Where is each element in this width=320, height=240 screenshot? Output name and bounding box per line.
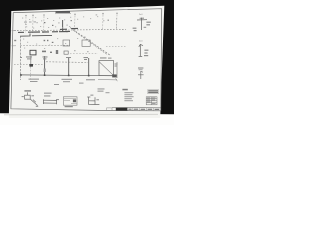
left vertical wall dashed — [19, 36, 21, 80]
plan title underline — [55, 13, 71, 15]
title table B — [146, 97, 157, 105]
section: dark corner footing — [112, 74, 116, 77]
dimension line below box — [98, 79, 117, 81]
bottom detail 1 valve assembly — [25, 92, 38, 105]
small plan marks — [42, 20, 109, 54]
bottom detail 3 hatch — [64, 98, 77, 103]
notes block heading — [122, 89, 127, 91]
title table B text — [147, 97, 156, 104]
section: post 1 lower dashes — [29, 67, 31, 80]
section: box right post — [116, 62, 118, 78]
lower dashed line — [70, 52, 98, 54]
right detail 2 post — [139, 44, 143, 56]
bottom detail 4 bracket — [87, 97, 99, 105]
title strip band top line — [112, 107, 161, 109]
interior dashed line right — [106, 45, 126, 47]
long dashed property line — [14, 29, 126, 30]
bottom detail 2 channel — [43, 99, 56, 104]
scanner black backdrop — [0, 0, 174, 114]
right symbol 3 cross — [138, 71, 144, 79]
left margin label — [14, 40, 16, 41]
section: top dashed rail — [46, 61, 88, 64]
vertical dashed stub — [116, 18, 118, 28]
wall stub vertical — [62, 20, 64, 32]
grid line F — [116, 14, 118, 30]
section: post 4 — [88, 58, 90, 76]
right symbol 3 label — [138, 67, 143, 68]
diagonal dashed line 2 — [74, 31, 108, 55]
note text right of section — [98, 88, 110, 93]
printed sheet border — [11, 9, 162, 111]
diagonal dashed line — [70, 28, 111, 56]
section: box diagonal — [99, 62, 112, 75]
bottom detail 2 notes — [44, 93, 59, 101]
section: left dashed rail — [14, 63, 44, 65]
section small text labels — [20, 56, 118, 72]
upper wall ledge — [20, 34, 52, 37]
baseline post nodes — [20, 74, 89, 76]
section: post 3 — [68, 58, 70, 76]
grid line D — [74, 15, 76, 30]
section: post 2 — [44, 56, 46, 76]
section: dark junction blob — [29, 64, 33, 67]
fixture box 2 — [82, 40, 90, 46]
plan speckle texture — [22, 16, 98, 49]
grid line E — [102, 15, 104, 30]
title strip: text smears — [128, 109, 159, 110]
grid bubbles row — [25, 13, 118, 17]
bottom detail 3 label — [65, 106, 73, 107]
right detail 2 side notes — [144, 50, 148, 57]
dimension line tick — [116, 78, 118, 81]
title table A — [148, 90, 159, 94]
text rows under baseline — [29, 79, 96, 85]
bottom detail 4 marks — [90, 95, 99, 101]
section: ground baseline — [20, 74, 117, 77]
left margin tick 2 — [12, 45, 17, 47]
scan edge faint line — [4, 113, 158, 116]
bottom detail 3 dark chunk — [73, 99, 76, 102]
plan title text — [56, 11, 71, 13]
grid line A — [25, 17, 27, 33]
misc faint plan smudges — [25, 14, 104, 52]
bottom detail 3 box — [63, 97, 77, 105]
page background white — [0, 0, 174, 125]
right detail 1 side notes — [133, 22, 151, 32]
white paper sheet (tilted) — [9, 6, 165, 118]
right detail 1 T-post — [137, 18, 147, 30]
bottom detail 1 label — [24, 90, 31, 91]
section: right box — [99, 61, 114, 76]
room box dark — [30, 50, 36, 55]
fixture box 1 — [63, 40, 70, 46]
title strip: dark block — [116, 108, 128, 111]
section: post 1 — [30, 56, 32, 67]
main wall run — [18, 28, 78, 32]
grid line C — [43, 16, 45, 33]
title strip: leading cell — [107, 108, 112, 111]
dimension text row — [24, 21, 36, 22]
left margin tick 1 — [12, 30, 16, 32]
title strip: cells — [133, 108, 154, 111]
notes block lines — [124, 92, 133, 101]
interior dashed line mid — [20, 44, 70, 47]
grid line B — [32, 16, 34, 33]
bottom detail 1 marks — [22, 95, 39, 107]
fixture box 3 — [64, 51, 68, 54]
